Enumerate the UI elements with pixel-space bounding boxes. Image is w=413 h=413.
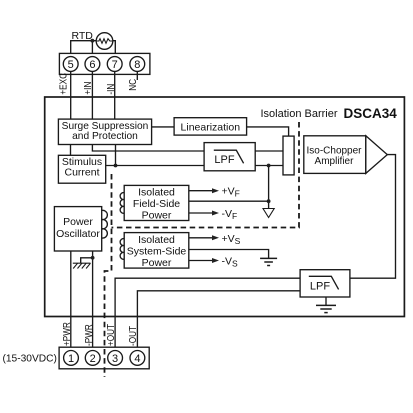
RTD sensor <box>96 33 113 50</box>
svg-text:DSCA34: DSCA34 <box>344 106 398 121</box>
LPF1 box <box>204 143 255 171</box>
isolation barrier dashed line right <box>112 122 300 228</box>
ground chassis near oscillator <box>73 263 91 268</box>
svg-text:LPF: LPF <box>214 154 234 166</box>
wire to chassis ground <box>81 258 93 263</box>
svg-text:+PWR: +PWR <box>60 322 72 346</box>
svg-text:Power: Power <box>142 210 172 222</box>
terminal 1 <box>64 351 79 366</box>
wire field common horizontal <box>189 200 269 202</box>
svg-text:5: 5 <box>68 59 74 71</box>
node -PWR ground junction <box>91 256 95 260</box>
svg-text:and Protection: and Protection <box>72 131 138 142</box>
wire +VS arrow <box>189 237 213 239</box>
svg-text:Field-Side: Field-Side <box>133 198 180 210</box>
svg-text:8: 8 <box>134 59 140 71</box>
wire terminal6 to RTD junction <box>91 41 93 57</box>
wire LPF2 ground stem <box>325 297 327 305</box>
svg-text:Isolation Barrier: Isolation Barrier <box>261 108 338 120</box>
wire terminal5 down to surge box <box>70 71 72 119</box>
wire -IN surge down <box>115 145 117 166</box>
wire -VS arrow <box>189 260 213 262</box>
svg-text:Oscillator: Oscillator <box>56 228 100 240</box>
svg-text:-PWR: -PWR <box>82 324 94 346</box>
wire +IN surge to LPF1 <box>92 145 204 152</box>
wire +VF arrow <box>189 190 213 192</box>
module enclosure box <box>45 97 405 317</box>
terminal 4 <box>130 351 145 366</box>
wire field common vertical <box>268 166 270 209</box>
svg-text:+OUT: +OUT <box>104 324 116 346</box>
svg-text:6: 6 <box>89 59 95 71</box>
linearization box <box>174 118 247 135</box>
svg-text:Iso-Chopper: Iso-Chopper <box>306 146 362 157</box>
power oscillator box <box>54 207 101 251</box>
svg-text:Amplifier: Amplifier <box>315 156 355 167</box>
wire terminal6 down to surge box <box>91 71 93 119</box>
wire +EXC surge to stimulus <box>70 145 72 156</box>
wire -VF arrow <box>189 212 213 214</box>
wire surge to linearization <box>152 126 175 128</box>
terminal block bottom <box>59 347 149 369</box>
svg-text:7: 7 <box>112 59 118 71</box>
wire terminal7 down to surge box <box>114 71 116 119</box>
svg-text:NC: NC <box>126 79 138 91</box>
svg-text:Power: Power <box>142 257 172 269</box>
svg-text:Linearization: Linearization <box>181 121 241 133</box>
wire amplifier output <box>350 155 396 279</box>
wire system common <box>189 250 269 259</box>
terminal 6 <box>85 57 100 72</box>
svg-text:+EXC: +EXC <box>57 73 69 95</box>
op-amp iso-chopper amplifier <box>304 136 366 174</box>
svg-text:+IN: +IN <box>81 81 93 94</box>
ground below LPF2 <box>316 305 336 312</box>
wire RTD horizontal <box>71 41 116 57</box>
terminal 7 <box>107 57 122 72</box>
svg-text:Current: Current <box>64 167 99 179</box>
LPF2 box <box>300 270 350 297</box>
svg-text:Isolated: Isolated <box>138 234 175 246</box>
terminal 2 <box>85 351 100 366</box>
node -IN junction <box>114 164 118 168</box>
node RTD junction <box>91 39 95 43</box>
wire linearization to barrier coupler <box>247 127 289 136</box>
terminal block top <box>59 53 149 74</box>
surge suppression box U1 <box>58 119 151 144</box>
terminal 3 <box>108 351 123 366</box>
wire stimulus to LPF1 <box>106 165 204 167</box>
wire -PWR <box>92 251 94 351</box>
barrier coupler element <box>283 136 294 175</box>
svg-text:4: 4 <box>134 353 140 365</box>
wire +PWR <box>70 251 72 351</box>
svg-text:2: 2 <box>90 353 96 365</box>
transformer T1 primary <box>102 210 108 238</box>
ground field common triangle <box>263 209 274 218</box>
svg-text:Isolated: Isolated <box>138 187 175 199</box>
svg-text:1: 1 <box>68 353 74 365</box>
svg-text:3: 3 <box>112 353 118 365</box>
wire LPF1 out upper <box>255 150 283 152</box>
svg-text:Power: Power <box>63 216 93 228</box>
svg-text:-OUT: -OUT <box>126 326 138 346</box>
terminal 5 <box>63 57 78 72</box>
node LPF1 lower junction <box>267 164 271 168</box>
svg-text:System-Side: System-Side <box>127 245 187 257</box>
wire terminal8 NC stub <box>136 71 138 80</box>
terminal 8 <box>130 57 145 72</box>
transformer T1 secondary lower <box>120 239 124 260</box>
stimulus current box <box>58 155 105 183</box>
wire LPF1 out lower <box>255 165 283 167</box>
wire +OUT <box>115 278 300 350</box>
isolated system-side power box <box>124 233 189 269</box>
ground system common <box>260 258 277 265</box>
svg-text:(15-30VDC): (15-30VDC) <box>3 353 57 364</box>
svg-text:LPF: LPF <box>310 280 330 292</box>
isolation barrier dashed line left <box>105 174 112 377</box>
isolated field-side power box <box>124 185 189 220</box>
wire -OUT <box>137 291 300 351</box>
node field common junction <box>267 199 271 203</box>
transformer T1 secondary upper <box>120 193 124 214</box>
